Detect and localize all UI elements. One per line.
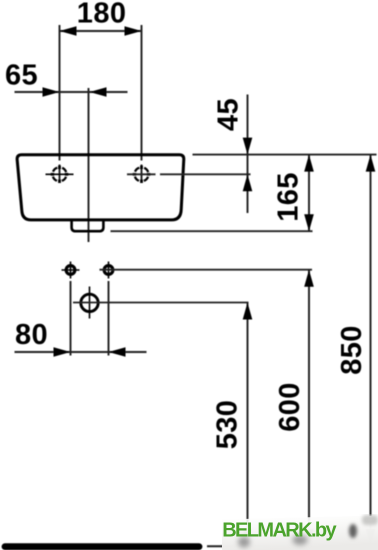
svg-text:80: 80: [15, 319, 48, 351]
leader line from drain stub: [111, 230, 313, 232]
svg-text:165: 165: [273, 172, 305, 222]
centerline of drain: [88, 88, 90, 242]
drain stub under basin: [72, 219, 104, 231]
fixing hole right: [104, 262, 113, 279]
blurred blob middle: [293, 535, 308, 545]
svg-text:600: 600: [274, 382, 306, 432]
watermark panel BELMARK.by: [221, 514, 378, 550]
extension line right tap hole: [141, 25, 143, 161]
extension line left tap hole: [59, 25, 61, 161]
dimension 45 vertical line with outside arrows: [243, 95, 253, 214]
dimension line 65 with outside arrows: [15, 87, 128, 97]
svg-text:180: 180: [77, 0, 127, 30]
svg-text:BELMARK.by: BELMARK.by: [222, 519, 337, 541]
drain circle: [81, 287, 98, 319]
dimension 600 vertical line with arrows: [304, 270, 314, 546]
floor line thin extension: [207, 545, 378, 547]
svg-text:65: 65: [5, 60, 38, 92]
dimension 850 vertical line with arrows: [366, 155, 376, 546]
blurred light logo top right: [362, 515, 378, 525]
dimension line 180 with arrows: [60, 26, 142, 36]
svg-text:45: 45: [213, 98, 245, 131]
blurred blob dark right: [349, 524, 357, 538]
tap hole left (dashed circle): [46, 166, 74, 183]
dimension 530 vertical line with arrows: [243, 303, 253, 547]
floor line thick: [5, 543, 199, 550]
tap hole right (dashed circle): [133, 166, 151, 183]
dimension 165 vertical line with arrows: [304, 155, 314, 232]
extension line left fixing hole: [70, 281, 72, 356]
extension line right fixing hole: [108, 281, 110, 356]
fixing hole left: [62, 262, 80, 279]
basin outline: [17, 155, 184, 220]
leader line from right tap hole: [127, 173, 156, 175]
dimension line 80 with outside arrows: [15, 347, 147, 357]
blurred blob left: [238, 537, 250, 548]
leader line from drain circle: [73, 302, 249, 304]
leader line from right fixing hole: [100, 269, 313, 271]
top reference line from basin rim: [193, 154, 377, 156]
svg-text:850: 850: [336, 325, 368, 375]
svg-text:530: 530: [212, 400, 244, 450]
